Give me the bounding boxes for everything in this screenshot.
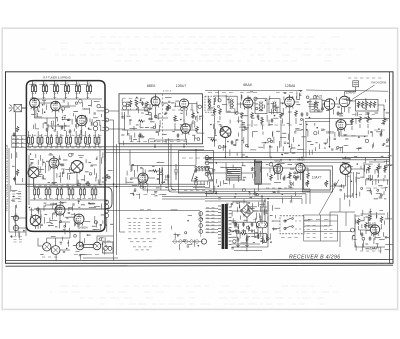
wires phono amp	[355, 222, 382, 240]
note row top right	[348, 77, 381, 79]
wires interconnect	[105, 111, 125, 250]
wire tuner to speaker area	[70, 231, 114, 242]
resistor R4 (antenna shunt)	[16, 126, 19, 132]
wires fm conv	[305, 118, 389, 136]
input coil L3	[123, 102, 127, 106]
notes bottom lines	[133, 246, 152, 248]
resistor R49 (cathode)	[139, 135, 145, 138]
dial cord pulleys horizontal run	[173, 239, 177, 243]
label fuse	[253, 219, 262, 221]
table header text	[308, 218, 328, 220]
discriminator parts texture	[306, 96, 390, 156]
speaker jack SK2	[51, 246, 60, 255]
tube V15 output 2	[296, 163, 305, 174]
resistor R73	[307, 172, 310, 179]
speaker jack SK1	[43, 243, 51, 251]
capacitor C96	[369, 236, 372, 241]
resistor R65 (discrim board)	[373, 101, 376, 108]
filter capacitor C85	[246, 237, 249, 242]
resistor-capacitor pair R14/C14 (tuner top row)	[64, 81, 70, 99]
resistor R91	[152, 170, 159, 173]
wires CR2 area	[131, 166, 196, 191]
bus junction dots	[113, 146, 376, 202]
svg-text:RECEIVER B 4/296: RECEIVER B 4/296	[289, 255, 340, 261]
tuner lower parts texture	[29, 200, 114, 234]
tube V7 12BU7 b	[181, 124, 191, 135]
voltage chart table (tuner)	[12, 136, 26, 148]
labels under tuner top row	[32, 96, 35, 98]
junction dots on rails	[154, 146, 330, 148]
resistor R44	[138, 120, 145, 123]
labels tone pots	[366, 187, 385, 189]
svg-text:6BE6: 6BE6	[326, 131, 334, 135]
antenna balun input	[9, 104, 27, 112]
quartz filter block	[353, 81, 359, 93]
resistor R69	[367, 116, 370, 123]
tube V11 6AL5 detector	[324, 99, 335, 110]
resistor R95	[357, 218, 360, 225]
wires switch	[272, 220, 310, 229]
resistor R45 (screen)	[167, 104, 170, 111]
tube V1B mixer	[51, 101, 61, 112]
IF section top rail	[205, 89, 302, 91]
RF tuner & bandspread enclosure box	[26, 81, 105, 232]
svg-text:TYPICAL VOLTAGE & RESISTANCE D: TYPICAL VOLTAGE & RESISTANCE DIAGRAM	[5, 145, 9, 211]
phono input jack J2	[13, 225, 18, 230]
resistor R63 (discrim board)	[365, 101, 368, 108]
tube V17 12AX7 phono	[370, 225, 379, 236]
transformer windings	[218, 206, 232, 244]
wires rectifier	[232, 202, 258, 222]
resistor pair R21 (bandspread row)	[34, 187, 40, 200]
resistor R92	[195, 176, 198, 183]
capacitor C86	[257, 234, 260, 239]
svg-text:12AX7: 12AX7	[312, 176, 322, 180]
resistor pair R26 (bandspread row)	[91, 187, 97, 200]
resistor R97	[380, 216, 383, 223]
svg-text:6BA6: 6BA6	[243, 83, 252, 87]
resistor R81 (surge)	[240, 232, 247, 235]
resistor R51	[213, 108, 216, 115]
resistor R68	[359, 116, 362, 123]
bandspread inner box	[34, 187, 112, 209]
grid resistor R98	[369, 215, 372, 221]
capacitor C95	[361, 232, 364, 237]
resistor R54	[251, 112, 254, 119]
resistor pair R32 (divider band)	[37, 131, 43, 147]
wire bundle to controls	[348, 172, 357, 198]
labels phono amp parts	[360, 250, 381, 252]
wire heater run right	[302, 189, 310, 204]
labels speaker jacks	[42, 256, 57, 258]
smudge labels IF	[172, 109, 193, 111]
svg-text:6BD6: 6BD6	[82, 107, 90, 111]
resistor R41	[129, 100, 132, 107]
switch terminals	[295, 220, 301, 222]
output transformer T6 (striped)	[255, 161, 262, 184]
svg-text:6BQ5: 6BQ5	[297, 158, 305, 162]
svg-text:12AV6: 12AV6	[345, 91, 355, 95]
filter capacitor C82	[242, 222, 245, 227]
svg-text:FM DISCRIM.: FM DISCRIM.	[371, 82, 387, 85]
resistor pair R34 (divider band)	[56, 131, 62, 147]
resistor R64 (discrim board)	[369, 101, 372, 108]
labels speaker terminal box	[101, 240, 110, 242]
tone control parts texture	[334, 156, 393, 207]
resistor-capacitor pair R11/C11 (tuner top row)	[31, 81, 37, 99]
resistor pair R38 (divider band)	[94, 131, 100, 147]
FM section verticals	[304, 119, 307, 158]
capacitor C61	[337, 111, 340, 116]
wires discrim	[322, 92, 384, 119]
resistor R47	[192, 112, 195, 119]
capacitor C53	[231, 140, 234, 145]
fuse holder F1	[257, 221, 268, 228]
wires IF row	[214, 96, 299, 147]
tube V10 AGC (crossed)	[220, 127, 231, 138]
speaker terminal box	[103, 242, 114, 253]
svg-text:47K: 47K	[87, 83, 91, 85]
bus wire tuner top	[30, 98, 102, 100]
terminal strip CR2	[136, 194, 163, 196]
label on lower rail	[140, 208, 151, 210]
tube V8 6BA6 IF amp	[243, 96, 253, 110]
IF transformer T4	[269, 99, 280, 113]
IF transformer T3	[255, 99, 267, 114]
socket symbol (bottom view)	[192, 166, 213, 181]
resistor pair R37 (divider band)	[85, 131, 91, 147]
extra B+ rail	[105, 151, 390, 153]
wire bundle converter to socket	[169, 144, 206, 192]
tube V7 12BU7 a	[179, 99, 188, 110]
svg-text:6BE6: 6BE6	[147, 84, 156, 88]
resistor pair R36 (divider band)	[75, 131, 81, 147]
capacitor C8	[13, 132, 16, 137]
tuner mid parts texture	[30, 152, 113, 190]
IF transformer T1	[205, 96, 214, 112]
resistor R82 (bleeder)	[263, 234, 266, 243]
pointer line from table	[319, 180, 339, 215]
pointer line FM discrim	[352, 85, 375, 100]
speaker area texture	[40, 234, 111, 261]
tube V12 12AV6	[339, 96, 350, 107]
resistor R75	[384, 166, 387, 173]
drawing number bottom right	[376, 262, 388, 264]
wire left bus drop	[130, 150, 196, 190]
switch position table	[304, 215, 338, 241]
wire audio couple	[205, 173, 346, 186]
capacitor C72	[295, 176, 298, 181]
tube V6 6BE6 converter	[151, 94, 160, 107]
resistor pair R33 (divider band)	[47, 131, 53, 147]
potentiometer VR2 (tone)	[325, 180, 328, 187]
notes body lines (two columns)	[129, 222, 141, 224]
tuning gang section C1B	[71, 161, 83, 173]
resistor R43	[146, 101, 149, 107]
svg-text:6AL5: 6AL5	[315, 95, 323, 99]
tube V16 12AX7 (crossed)	[340, 164, 351, 175]
tone cap C94	[195, 168, 198, 173]
potentiometer VR1 (volume)	[306, 180, 309, 187]
primary lead labels	[206, 207, 215, 209]
filter capacitor C81	[235, 222, 238, 227]
socket detail box	[179, 151, 214, 194]
heater wiring to phono	[304, 212, 352, 247]
svg-text:6BQ5: 6BQ5	[274, 159, 282, 163]
small parts right edge	[374, 129, 385, 131]
tube V1A RF amplifier	[30, 98, 40, 109]
wires tuner lower	[29, 150, 100, 229]
resistor R48	[196, 126, 199, 133]
wires speaker jacks	[38, 238, 70, 250]
wires converter	[121, 103, 196, 130]
resistor R58	[261, 118, 264, 125]
choke / field coil (striped)	[226, 168, 241, 181]
resistor R67	[351, 118, 354, 125]
oscillator coil L2	[93, 122, 97, 126]
preamp enclosure	[303, 166, 333, 192]
wires 12BU7	[155, 104, 197, 141]
capacitor C91 (big)	[160, 168, 163, 184]
capacitor C51	[257, 114, 260, 119]
wires phono feed	[308, 198, 355, 226]
note text (alignment note)	[12, 191, 21, 193]
table rows text	[307, 225, 316, 227]
resistor pair R22 (bandspread row)	[45, 187, 51, 200]
resistor-capacitor pair R16/C16 (tuner top row)	[86, 81, 92, 99]
mica capacitor C7	[69, 129, 72, 134]
left margin texture	[11, 152, 25, 238]
ground return wire left	[9, 148, 26, 236]
discriminator load resistor board	[356, 100, 379, 112]
B+ bus wires	[205, 157, 390, 162]
tuning gang section C1C	[30, 215, 41, 226]
tube V3 bandspread	[49, 158, 59, 170]
speaker terminal strip	[266, 187, 293, 189]
resistor R57	[210, 139, 217, 142]
resistor R5 (AGC filter)	[16, 169, 19, 176]
filter capacitor C84	[237, 237, 240, 242]
bandspread row bus	[34, 186, 106, 188]
tuner upper parts texture	[31, 100, 107, 136]
note star bullet	[10, 235, 12, 237]
resistor pair R35 (divider band)	[66, 131, 72, 147]
interconnect plug P2 pins	[205, 156, 213, 176]
converter box divider	[162, 94, 164, 144]
resistor R56	[295, 110, 298, 117]
resistor-capacitor pair R13/C13 (tuner top row)	[53, 81, 59, 99]
bridge rectifier CR1	[241, 205, 254, 218]
svg-text:47K: 47K	[43, 83, 47, 85]
converter box parts texture	[121, 97, 204, 146]
discriminator transformer T5	[310, 99, 322, 112]
small parts row y118-128	[240, 124, 292, 126]
input jack phono amp	[351, 228, 355, 232]
potentiometer VR4	[377, 165, 380, 173]
labels converter cluster	[122, 97, 145, 99]
svg-text:R.F TUNER & SPREAD: R.F TUNER & SPREAD	[43, 75, 71, 79]
wire antenna feed down	[15, 112, 17, 184]
svg-text:6BD6: 6BD6	[80, 226, 88, 230]
dial area texture	[171, 210, 203, 250]
capacitor C42	[148, 118, 153, 121]
svg-text:47K: 47K	[32, 83, 36, 85]
socket labels	[182, 157, 207, 159]
phono parts texture	[352, 209, 393, 254]
svg-text:47K: 47K	[76, 83, 80, 85]
right section top rail	[306, 90, 388, 91]
resistor R46	[174, 115, 177, 122]
CR2 area texture	[126, 162, 168, 199]
tube V9 12BA6	[285, 95, 295, 109]
svg-text:A-2061-A: A-2061-A	[163, 90, 172, 93]
wires jacks	[19, 205, 26, 236]
resistor R62 (discrim board)	[361, 101, 364, 108]
lower rail wires	[107, 197, 205, 211]
phono amp outline	[355, 214, 385, 247]
tube CR2 selenium	[138, 173, 148, 185]
power vertical feeds	[262, 196, 268, 224]
capacitor C54	[271, 118, 274, 123]
capacitor C71	[283, 176, 286, 181]
interconnect plug P1 pins	[105, 109, 109, 113]
potentiometer VR3	[368, 165, 371, 173]
svg-text:12BA6: 12BA6	[285, 84, 296, 88]
notes middle lines	[128, 238, 156, 240]
phono input jack J1	[13, 215, 18, 220]
tube V4 bandspread osc	[55, 205, 65, 217]
IF strip parts texture	[207, 90, 306, 156]
IF transformer T2	[226, 96, 237, 112]
bleed-through ghost text rows	[40, 37, 354, 304]
supply distribution wires	[205, 189, 310, 201]
tube V13 6BE6 FM conv	[336, 120, 346, 132]
resistor pair R31 (divider band)	[28, 131, 34, 147]
wires power supply	[232, 201, 268, 244]
resistor pair R25 (bandspread row)	[80, 187, 86, 200]
capacitor C93 electrolytic	[174, 164, 179, 180]
wire IF box to bus	[155, 114, 330, 157]
heater bus wires	[15, 184, 205, 186]
resistor-capacitor pair R12/C12 (tuner top row)	[42, 81, 48, 99]
function switch box (dashed)	[280, 216, 304, 234]
svg-text:47K: 47K	[65, 83, 69, 85]
power output wiring runs	[232, 222, 268, 251]
resistor R66	[383, 118, 386, 125]
dial cord pulleys vertical run	[199, 212, 203, 216]
resistor pair R24 (bandspread row)	[68, 187, 74, 200]
label under switch	[281, 237, 298, 239]
output connector (dumbbell)	[76, 242, 101, 250]
resistor R52	[219, 108, 222, 115]
switch S1 wafer B	[284, 226, 293, 230]
filter capacitor C83	[251, 222, 254, 227]
wire bottom run	[83, 232, 125, 261]
resistor R61 (discrim board)	[357, 101, 360, 108]
antenna coil row labels	[29, 83, 86, 85]
antenna terminal arrows	[10, 105, 13, 112]
tube V2 oscillator	[77, 115, 87, 127]
note text (rear view note)	[14, 236, 23, 238]
schematic border frame	[6, 72, 394, 266]
bus wire under divider band	[27, 146, 204, 148]
resistor R42	[135, 100, 138, 107]
capacitor C41	[141, 101, 144, 106]
capacitor C9	[13, 177, 16, 182]
ground symbols under filter caps	[236, 244, 240, 247]
svg-text:12BU7: 12BU7	[176, 84, 187, 88]
capacitor C92	[167, 174, 170, 179]
converter section box	[119, 94, 203, 144]
tuning gang section C1A	[28, 167, 39, 178]
padder capacitor C5	[46, 127, 49, 132]
wires output stage	[261, 168, 308, 184]
wire antenna to tuner	[22, 107, 26, 109]
dial drum	[201, 239, 206, 244]
resistor-capacitor pair R15/C15 (tuner top row)	[75, 81, 81, 99]
tone amplifier box	[304, 170, 331, 190]
notes heading	[127, 217, 161, 219]
trimmer row under discrim	[352, 114, 375, 116]
capacitor C52	[301, 112, 304, 117]
switch S1 wafer A	[284, 218, 293, 222]
tube V5 follower	[74, 214, 84, 226]
trimmer capacitor C6	[61, 125, 64, 130]
capacitor C62	[380, 132, 383, 137]
wires tuner mid	[35, 103, 82, 140]
resistor pair R23 (bandspread row)	[57, 187, 63, 200]
resistor R96	[365, 222, 368, 229]
wires tone section	[351, 162, 389, 180]
svg-text:47K: 47K	[54, 83, 58, 85]
labels output connector	[74, 254, 99, 256]
power transformer T7 core	[222, 204, 228, 249]
resistor R72	[289, 172, 292, 179]
component cluster under IF	[208, 92, 233, 94]
resistor R55	[280, 112, 283, 119]
socket pin leads below	[193, 181, 210, 188]
capacitor C43	[177, 133, 180, 138]
power supply parts texture	[227, 204, 280, 251]
dial cord line	[172, 211, 203, 242]
audio mid parts texture	[207, 153, 300, 209]
tube V14 output 1	[273, 164, 282, 175]
resistor R71 (cathode bias)	[270, 174, 273, 181]
resistor R53	[241, 112, 244, 119]
